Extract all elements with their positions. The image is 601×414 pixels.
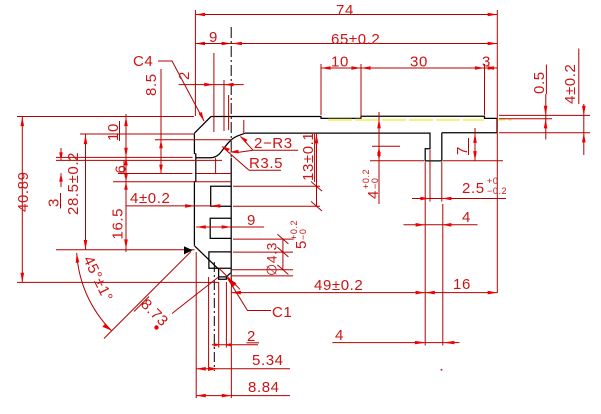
svg-text:+0: +0 [487,176,498,186]
svg-text:9: 9 [247,212,256,229]
svg-text:13±0.1: 13±0.1 [300,132,317,181]
svg-text:3: 3 [482,54,491,71]
svg-text:8.84: 8.84 [248,379,280,396]
45 deg chamfer bottom-left [195,246,219,269]
svg-text:40.89: 40.89 [15,171,32,212]
bottom: 2 [218,282,220,348]
svg-text:4: 4 [462,209,471,226]
top: 74 [194,10,196,116]
svg-text:2.5: 2.5 [462,180,485,197]
svg-text:4±0.2: 4±0.2 [562,64,579,104]
top 2 dim [213,53,215,132]
profile top flange with recess, right end [211,116,497,133]
svg-text:3: 3 [46,198,63,207]
right: 0.5 [499,114,590,116]
2.5 +0/-0.2 (y=198.5) [429,150,431,202]
svg-text:6: 6 [112,165,129,174]
svg-text:−0.2: −0.2 [487,186,507,196]
left: 3 (x=65) [60,148,62,161]
svg-text:2: 2 [176,71,193,80]
bottom: 5.34 [195,252,197,398]
svg-text:49±0.2: 49±0.2 [314,277,363,294]
yellow dashed surface marker [328,119,484,121]
svg-text:16: 16 [453,276,471,293]
left: 40.89 [17,116,194,118]
svg-text:−0: −0 [370,178,380,189]
svg-text:28.5±0.2: 28.5±0.2 [65,152,82,215]
svg-text:2−R3: 2−R3 [254,135,293,152]
left: 28.5±0.2 (x=85.5) [80,133,195,135]
9 left (y=227) [196,226,264,228]
left: 8.5 (x=161) [155,139,231,141]
svg-text:8.5: 8.5 [143,73,160,96]
svg-text:30: 30 [410,54,428,71]
svg-text:16.5: 16.5 [110,208,127,240]
4±0.2 left (y=205.9) [127,205,220,207]
svg-text:0.5: 0.5 [531,71,548,94]
svg-text:∅4.3: ∅4.3 [264,242,280,276]
svg-text:5: 5 [293,240,310,249]
svg-text:4±0.2: 4±0.2 [130,190,170,207]
top: 10 / 30 / 3 chain [320,64,322,115]
svg-text:C4: C4 [133,53,153,70]
left chain line x=125.8 : 10 / 6 / 16.5 [125,114,127,252]
top: 65±0.2 [195,43,497,45]
svg-text:C1: C1 [272,304,292,321]
svg-text:10: 10 [331,54,349,71]
slot 1 [211,186,232,206]
top: 9 [195,42,205,46]
13±0.1 (x=277.5) [316,134,318,206]
4 bottom middle (y=343.3) [332,342,459,344]
svg-text:5.34: 5.34 [252,352,284,369]
bottom: 8.84 [196,395,290,397]
column left edge with jog [194,133,195,246]
slot 2 [210,218,231,238]
5+0.2/-0 slot1 ext lines and rotated text [233,185,320,187]
svg-text:R3.5: R3.5 [249,155,283,172]
svg-text:4: 4 [365,190,382,199]
45°±1° angular [104,252,191,339]
7 (x=475) [443,160,503,162]
slot 3 [209,252,231,268]
svg-text:65±0.2: 65±0.2 [331,31,380,48]
bottom tail with C1 chamfer [219,273,231,277]
right: 4±0.2 [499,132,590,134]
top-left chamfer C4 [194,117,211,134]
center line of tail x=217.5 [213,262,215,371]
center line x=231 (dash-dot) [230,27,232,158]
49±0.2 and 16 (y=292.6) [230,276,232,398]
svg-text:−0: −0 [298,229,308,240]
∅4.3 chain (x=282.9) [233,238,293,240]
4 upper right (y=224.8) [404,224,478,226]
svg-text:74: 74 [336,2,354,19]
svg-text:4: 4 [335,327,344,344]
fillet S-curve to column surface [196,133,245,157]
small dot [441,369,443,371]
black wedge arrow at part edge [184,246,193,254]
8.73 [219,268,240,289]
column right edge (solid) [230,158,232,273]
4 +0.2/-0 flange (x=379) [378,112,380,204]
rib (T-foot) under flange right [245,133,442,161]
